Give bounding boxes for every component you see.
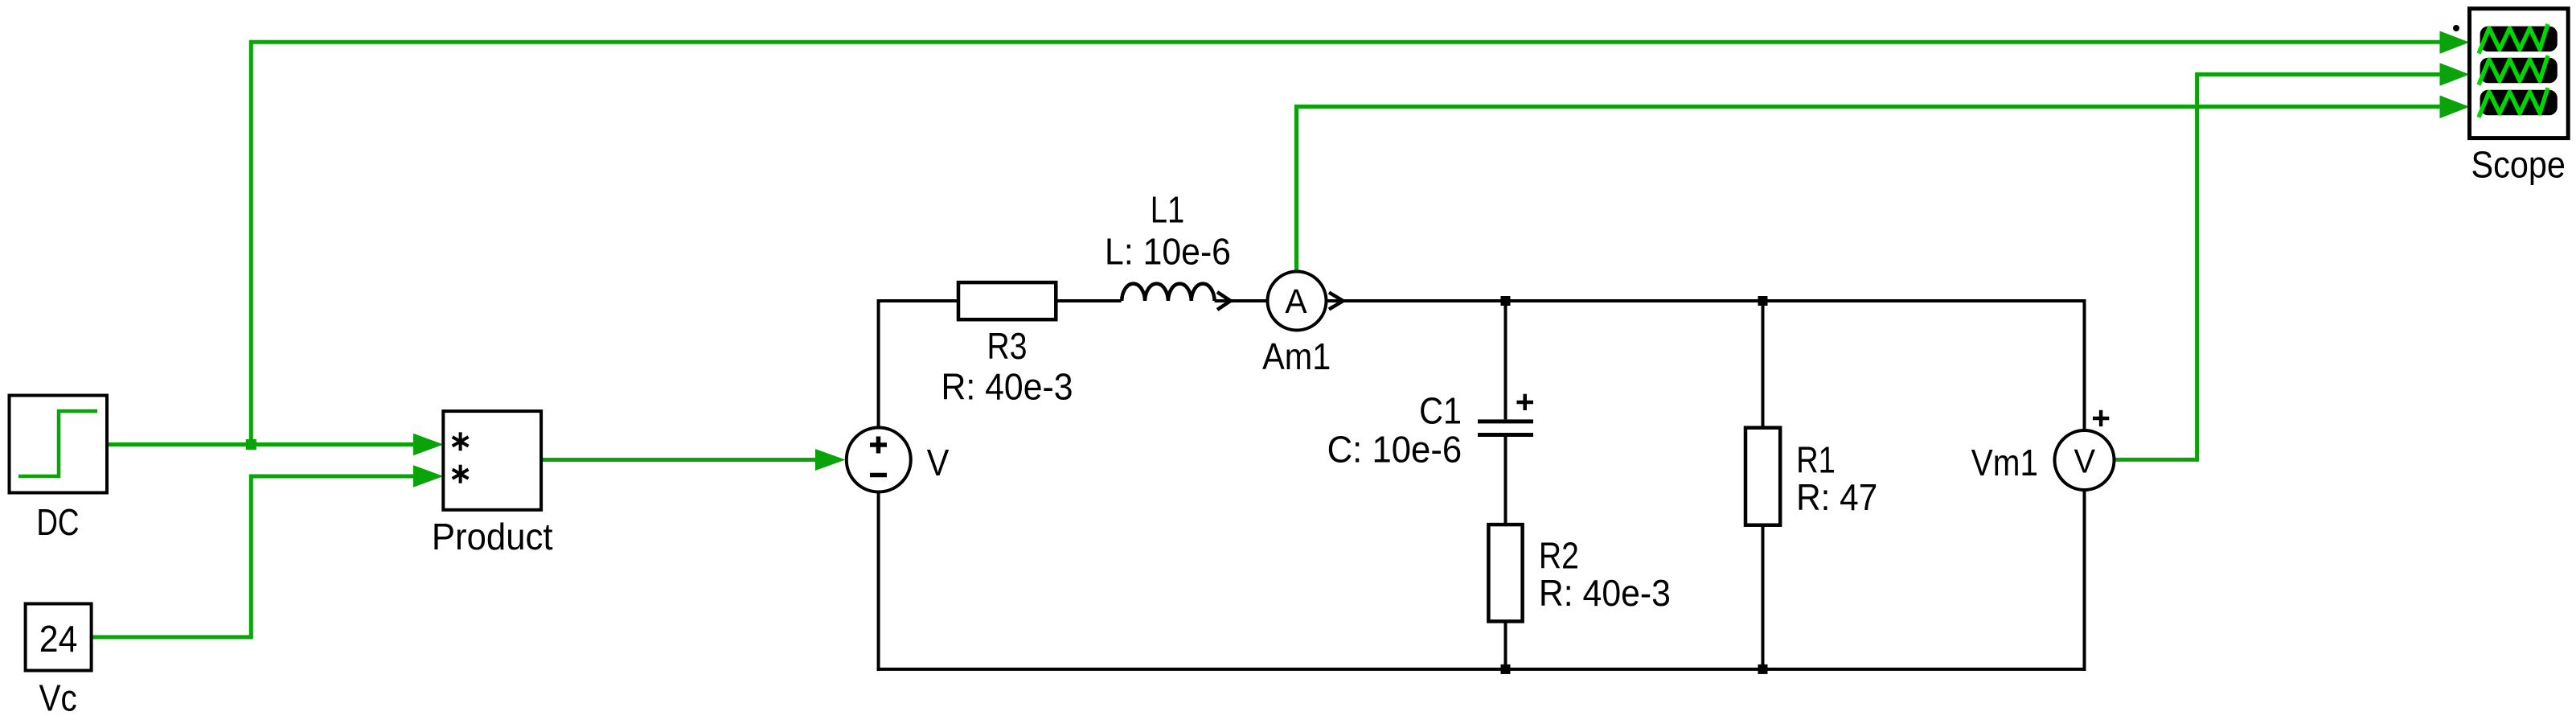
svg-text:R: 47: R: 47 <box>1796 478 1877 519</box>
svg-text:R3: R3 <box>987 326 1028 368</box>
svg-text:Vc: Vc <box>39 678 76 719</box>
svg-text:V: V <box>927 442 950 484</box>
svg-text:R: 40e-3: R: 40e-3 <box>1539 574 1671 615</box>
svg-text:R1: R1 <box>1796 439 1836 480</box>
svg-text:L: 10e-6: L: 10e-6 <box>1105 232 1231 273</box>
svg-text:V: V <box>2074 442 2095 480</box>
svg-text:Am1: Am1 <box>1262 336 1331 378</box>
svg-text:Vm1: Vm1 <box>1971 442 2038 483</box>
svg-text:A: A <box>1285 282 1306 320</box>
svg-text:R2: R2 <box>1539 536 1579 578</box>
svg-text:C: 10e-6: C: 10e-6 <box>1327 428 1462 470</box>
svg-text:DC: DC <box>36 501 79 543</box>
svg-text:R: 40e-3: R: 40e-3 <box>941 367 1073 408</box>
svg-text:L1: L1 <box>1151 189 1184 230</box>
svg-text:24: 24 <box>39 619 78 660</box>
svg-text:C1: C1 <box>1419 391 1462 433</box>
svg-text:Scope: Scope <box>2471 145 2566 187</box>
svg-text:Product: Product <box>432 516 553 557</box>
